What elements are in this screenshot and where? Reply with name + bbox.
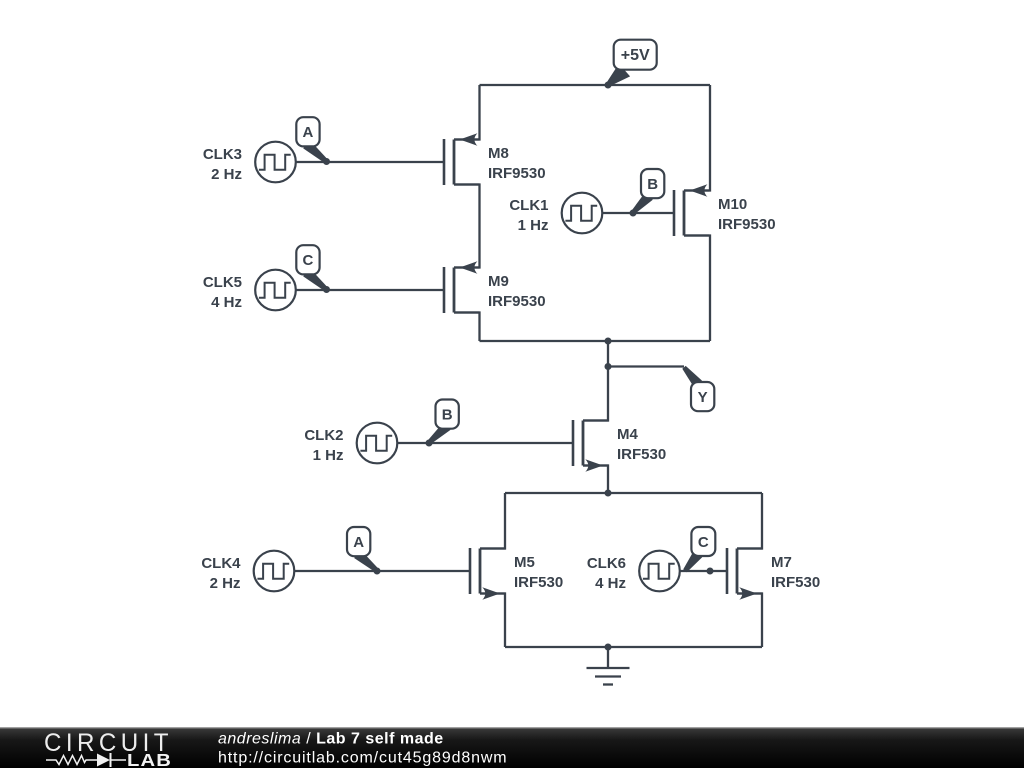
junction node A at CLK4 — [374, 568, 381, 575]
node A flag (at CLK4) — [347, 527, 379, 572]
wire: CLK5 to M9 gate — [296, 289, 445, 291]
svg-text:M5: M5 — [514, 554, 535, 571]
node Y flag (output) — [682, 366, 714, 411]
svg-text:2 Hz: 2 Hz — [211, 166, 242, 183]
wire: top rail of parallel NMOS pair — [505, 492, 762, 494]
wire: M5 source to ground rail — [480, 594, 505, 648]
junction NMOS top rail — [605, 490, 612, 497]
svg-text:IRF530: IRF530 — [514, 574, 563, 591]
svg-text:2 Hz: 2 Hz — [210, 575, 241, 592]
junction PMOS output rail — [605, 338, 612, 345]
label M7 IRF530 — [771, 554, 820, 591]
wire: M7 drain lead — [737, 493, 762, 549]
wire: CLK2 to M4 gate — [397, 442, 573, 444]
transistor M7 (NMOS) — [727, 548, 763, 600]
wire: M10 drain to output rail — [684, 236, 710, 342]
svg-text:B: B — [647, 176, 658, 193]
junction node C at CLK6 — [707, 568, 714, 575]
wire: tap to node Y label — [608, 365, 684, 367]
wire: M8 source to M9 drain — [454, 185, 480, 268]
label M5 IRF530 — [514, 554, 563, 591]
CircuitLab logo: LAB text — [127, 750, 172, 768]
svg-text:4 Hz: 4 Hz — [595, 575, 626, 592]
wire: CLK1 to M10 gate — [602, 212, 674, 214]
transistor M9 (PMOS) — [444, 261, 480, 313]
node C flag (at CLK5) — [296, 245, 328, 291]
node C flag (at CLK6) — [683, 527, 715, 572]
wire: M7 source to ground rail — [737, 594, 762, 648]
footer url — [218, 750, 507, 767]
svg-text:LAB: LAB — [127, 750, 172, 768]
transistor M8 drain lead wire — [454, 85, 480, 140]
footer bar — [0, 727, 1024, 768]
svg-text:B: B — [442, 406, 453, 423]
svg-text:1 Hz: 1 Hz — [518, 217, 549, 234]
label M10 IRF9530 — [718, 196, 776, 233]
svg-text:IRF9530: IRF9530 — [488, 293, 546, 310]
svg-text:A: A — [303, 124, 314, 141]
transistor M5 (NMOS) — [470, 548, 506, 600]
svg-text:M9: M9 — [488, 273, 509, 290]
svg-text:IRF530: IRF530 — [771, 574, 820, 591]
node B flag (at CLK2) — [428, 400, 459, 445]
junction node C at CLK5 — [323, 286, 330, 293]
junction node A at CLK3 — [323, 158, 330, 165]
label M8 IRF9530 — [488, 145, 546, 182]
junction Y tap — [605, 363, 612, 370]
voltage source CLK5 4 Hz — [203, 270, 296, 311]
wire: CLK4 to M5 gate — [294, 570, 470, 572]
svg-text:CLK6: CLK6 — [587, 555, 626, 572]
junction at +5V — [605, 82, 612, 89]
node A flag (at CLK3) — [296, 117, 328, 163]
svg-text:andreslima / Lab 7 self made: andreslima / Lab 7 self made — [218, 731, 444, 748]
svg-text:1 Hz: 1 Hz — [313, 447, 344, 464]
wire: M4 source down to NMOS rail — [583, 466, 608, 494]
CircuitLab logo: CIRCUIT text — [44, 729, 173, 757]
svg-text:M10: M10 — [718, 196, 747, 213]
transistor M10 source lead wire — [684, 85, 710, 191]
svg-text:CLK5: CLK5 — [203, 274, 242, 291]
wire: M5 drain lead — [480, 493, 505, 549]
voltage source CLK1 1 Hz — [509, 193, 602, 234]
wire: node Y vertical / M4 drain — [583, 341, 608, 421]
transistor M4 (NMOS) — [573, 420, 609, 472]
svg-text:+5V: +5V — [621, 47, 650, 64]
svg-text:M7: M7 — [771, 554, 792, 571]
svg-text:CLK2: CLK2 — [304, 427, 343, 444]
voltage source CLK3 2 Hz — [203, 142, 296, 183]
svg-text:CLK3: CLK3 — [203, 146, 242, 163]
svg-text:C: C — [698, 534, 709, 551]
wire: CLK6 to M7 gate — [680, 570, 727, 572]
svg-text:Y: Y — [698, 389, 708, 406]
svg-text:IRF9530: IRF9530 — [718, 216, 776, 233]
junction node B at CLK1 — [630, 210, 637, 217]
svg-text:CLK1: CLK1 — [509, 197, 548, 214]
voltage source CLK6 4 Hz — [587, 551, 680, 592]
svg-text:http://circuitlab.com/cut45g89: http://circuitlab.com/cut45g89d8nwm — [218, 750, 507, 767]
wire: CLK3 to M8 gate — [296, 161, 445, 163]
voltage source CLK2 1 Hz — [304, 423, 397, 464]
label M4 IRF530 — [617, 426, 666, 463]
svg-text:M4: M4 — [617, 426, 638, 443]
svg-text:IRF530: IRF530 — [617, 446, 666, 463]
voltage source CLK4 2 Hz — [201, 551, 294, 592]
power supply +5V flag — [607, 40, 657, 86]
svg-text:A: A — [353, 534, 364, 551]
wire: ground rail — [505, 646, 762, 648]
svg-text:CLK4: CLK4 — [201, 555, 241, 572]
svg-text:IRF9530: IRF9530 — [488, 165, 546, 182]
wire: +5V top rail — [480, 84, 711, 86]
wire: M9 source to output rail — [454, 313, 480, 342]
label M9 IRF9530 — [488, 273, 546, 310]
CircuitLab logo: resistor-diode squiggle — [46, 753, 126, 767]
junction node B at CLK2 — [426, 440, 433, 447]
footer title: andreslima / Lab 7 self made — [218, 731, 444, 748]
transistor M8 (PMOS) — [444, 133, 480, 185]
transistor M10 (PMOS) — [674, 184, 710, 236]
svg-text:4 Hz: 4 Hz — [211, 294, 242, 311]
node B flag (at CLK1) — [631, 169, 664, 214]
junction ground rail — [605, 644, 612, 651]
svg-text:C: C — [303, 252, 314, 269]
ground — [587, 647, 630, 685]
wire: output rail of PMOS network — [480, 340, 711, 342]
svg-text:M8: M8 — [488, 145, 509, 162]
